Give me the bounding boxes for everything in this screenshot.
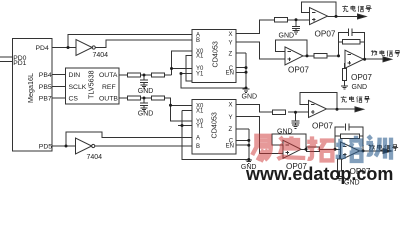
resistor R3 bbox=[128, 96, 141, 100]
wire Y0 tap bbox=[172, 68, 193, 70]
wire U1 Y to opamp2 bbox=[236, 42, 285, 59]
svg-text:X: X bbox=[229, 103, 233, 109]
svg-text:SCLK: SCLK bbox=[69, 84, 87, 91]
svg-text:X1: X1 bbox=[196, 108, 204, 114]
op-amp U8 OP07 bbox=[309, 100, 327, 117]
CD4053 U2 box bbox=[192, 100, 236, 155]
svg-text:GND: GND bbox=[242, 93, 258, 100]
wire U10 plus to gnd resistor R12 bbox=[340, 156, 341, 159]
svg-text:PB4: PB4 bbox=[39, 72, 52, 79]
op-amp U7 OP07 bbox=[345, 50, 364, 68]
wire PD4 bypass to A bbox=[68, 34, 192, 47]
RC feedback C4 R7 bbox=[339, 29, 365, 60]
wire U8 feedback bbox=[300, 93, 337, 110]
resistor R6 bbox=[314, 54, 327, 58]
op-amp U10 OP07 bbox=[341, 142, 360, 160]
signal label 放电信号 top bbox=[371, 50, 400, 56]
wire U5 output arrow bbox=[328, 15, 362, 17]
svg-text:PD4: PD4 bbox=[36, 45, 49, 52]
svg-text:OP07: OP07 bbox=[288, 66, 309, 75]
wire PD4 bbox=[52, 47, 76, 49]
svg-text:GND: GND bbox=[352, 84, 368, 91]
wire Y1b bbox=[178, 125, 192, 127]
wire U6 out to U7 bbox=[303, 55, 339, 57]
svg-text:X1: X1 bbox=[196, 54, 204, 60]
wire U7 output arrow bbox=[364, 58, 387, 60]
svg-text:DIN: DIN bbox=[69, 72, 81, 79]
wire PB5-SCLK bbox=[52, 86, 66, 88]
svg-text:Z: Z bbox=[229, 51, 233, 57]
wire PD1 bbox=[0, 61, 13, 63]
wire Y0b tap bbox=[171, 105, 193, 121]
resistor R5 bbox=[275, 18, 288, 22]
capacitor C3 to gnd bbox=[292, 20, 300, 30]
resistor R2 bbox=[151, 73, 164, 77]
svg-text:OUTB: OUTB bbox=[99, 95, 118, 102]
svg-text:B: B bbox=[196, 38, 200, 44]
wire OUTA chain bbox=[119, 74, 172, 76]
svg-text:Z: Z bbox=[229, 127, 233, 133]
svg-text:TLV5638: TLV5638 bbox=[87, 70, 96, 99]
svg-text:PB7: PB7 bbox=[39, 95, 52, 102]
svg-text:CD4053: CD4053 bbox=[211, 41, 220, 67]
wire U7 plus to gnd resistor R8 bbox=[344, 64, 347, 69]
7404 U3 triangle bbox=[76, 40, 92, 56]
wire U8 output arrow bbox=[327, 108, 359, 110]
signal label 放电信号 bottom bbox=[368, 144, 398, 150]
svg-text:GND: GND bbox=[138, 88, 154, 95]
wire U5 feedback bbox=[302, 2, 337, 17]
wire X1 stub bbox=[186, 55, 192, 81]
MCU Mega16L box bbox=[13, 39, 53, 152]
wire U6 feedback bbox=[276, 40, 308, 56]
svg-text:PB5: PB5 bbox=[39, 84, 52, 91]
wire OUTB chain bbox=[119, 98, 192, 105]
wire U9 out to U10 bbox=[301, 148, 341, 150]
wire Y1 gnd riser bbox=[181, 74, 246, 89]
wire X1b riser bbox=[182, 110, 249, 159]
wire 7404 U3 output to B bbox=[95, 40, 192, 48]
svg-text:CD4053: CD4053 bbox=[210, 112, 219, 138]
op-amp U5 OP07 bbox=[310, 8, 328, 25]
svg-text:CS: CS bbox=[69, 95, 79, 102]
svg-text:OP07: OP07 bbox=[315, 29, 336, 38]
svg-text:X: X bbox=[229, 32, 233, 38]
wire U2 Y to opamp5 bbox=[236, 117, 283, 154]
wire 7404 U4 output to B2 bbox=[95, 145, 192, 147]
svg-text:7404: 7404 bbox=[93, 52, 109, 59]
svg-text:A: A bbox=[196, 136, 200, 142]
signal label 充电信号 top bbox=[342, 5, 371, 11]
resistor R4 bbox=[151, 96, 164, 100]
svg-text:EN: EN bbox=[226, 71, 234, 77]
svg-text:OUTA: OUTA bbox=[99, 72, 118, 79]
wire U1 X to opamp1 bbox=[236, 20, 310, 34]
svg-text:Y1: Y1 bbox=[196, 124, 204, 130]
RC feedback C6 R11 bbox=[335, 123, 363, 151]
svg-text:Mega16L: Mega16L bbox=[26, 73, 35, 103]
wire PB7-CS bbox=[52, 97, 66, 99]
svg-text:Y: Y bbox=[229, 40, 233, 46]
svg-text:7404: 7404 bbox=[87, 154, 103, 161]
resistor R1 bbox=[128, 73, 141, 77]
wire PD0 bbox=[0, 56, 13, 58]
wire X0 riser bbox=[172, 51, 193, 75]
svg-text:OP07: OP07 bbox=[312, 122, 333, 131]
capacitor C5 to gnd bbox=[292, 112, 300, 125]
svg-text:Y: Y bbox=[229, 115, 233, 121]
watermark 易迪拓 red bbox=[252, 136, 334, 162]
svg-text:REF: REF bbox=[102, 84, 116, 91]
svg-text:GND: GND bbox=[277, 128, 293, 135]
resistor R10 bbox=[307, 147, 320, 151]
CD4053 U1 box bbox=[192, 29, 236, 82]
svg-text:www.edatop.com: www.edatop.com bbox=[245, 164, 393, 184]
wire U9 feedback bbox=[272, 134, 306, 149]
op-amp U9 OP07 bbox=[283, 140, 301, 158]
7404 U4 triangle bbox=[76, 138, 92, 154]
capacitor C2 to gnd bbox=[140, 98, 148, 108]
wire U1 Z C EN to gnd bbox=[236, 53, 246, 88]
svg-text:PD1: PD1 bbox=[13, 60, 26, 67]
svg-text:GND: GND bbox=[138, 111, 154, 118]
svg-text:GND: GND bbox=[279, 33, 295, 40]
svg-text:EN: EN bbox=[226, 143, 234, 149]
wire PD5 bypass to A2 bbox=[66, 132, 192, 146]
resistor R9 bbox=[273, 110, 286, 114]
signal label 充电信号 bottom bbox=[341, 96, 370, 102]
wire U2 X to opamp4 bbox=[236, 105, 309, 113]
TLV5638 box bbox=[66, 68, 120, 104]
wire U2 Z C EN to gnd bbox=[236, 129, 249, 160]
svg-text:B: B bbox=[196, 144, 200, 150]
op-amp U6 OP07 bbox=[285, 47, 303, 65]
wire PD5 bbox=[52, 145, 76, 147]
wire PB4-DIN bbox=[52, 74, 66, 76]
wire U10 output arrow bbox=[360, 150, 386, 152]
watermark 培训 blue bbox=[336, 136, 391, 161]
rotated chip names bbox=[26, 41, 219, 138]
svg-text:PD5: PD5 bbox=[39, 144, 52, 151]
svg-text:OP07: OP07 bbox=[351, 73, 372, 82]
capacitor C1 to gnd bbox=[140, 75, 148, 85]
svg-text:Y1: Y1 bbox=[196, 72, 204, 78]
